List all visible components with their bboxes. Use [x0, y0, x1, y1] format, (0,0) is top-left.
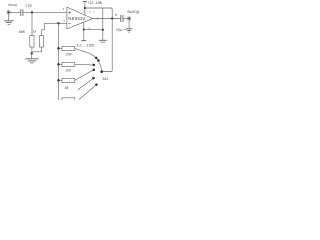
svg-text:5К: 5К	[65, 86, 70, 90]
resistor R5 (horizontal box)	[62, 78, 75, 82]
wire input connector to C1	[10, 11, 20, 13]
svg-text:NE5532: NE5532	[68, 16, 86, 21]
node D junction dot (V+ / feedback line)	[84, 7, 86, 9]
ground (output)	[126, 28, 133, 30]
svg-text:2: 2	[63, 19, 65, 23]
svg-text:ВХОД: ВХОД	[9, 3, 18, 7]
wire R3 to switch contact 1	[75, 48, 87, 52]
svg-text:3: 3	[63, 7, 65, 11]
ground (decoupling branch)	[99, 39, 107, 41]
svg-text:68К: 68К	[19, 30, 26, 34]
wire R4 to switch contact 3	[75, 63, 94, 66]
resistor R4 (horizontal box)	[62, 62, 75, 66]
wire R5 to switch contact 4	[75, 70, 94, 81]
wire ladder rail (inverting net)	[58, 23, 60, 100]
node F junction dot (branch / V- wire)	[102, 29, 104, 31]
wire output connector to ground	[128, 20, 130, 29]
switch SA1 wiper arc	[87, 52, 101, 71]
wire R2 top jog to inverting input wire	[42, 23, 45, 35]
switch contact dot 2	[97, 59, 100, 62]
svg-text:1к: 1к	[33, 30, 37, 34]
svg-text:6,7: 6,7	[89, 10, 95, 14]
svg-text:ВЫХОД: ВЫХОД	[128, 10, 140, 14]
wire C1 to op-amp pin3	[23, 11, 67, 13]
wire V+ terminal to op-amp pin 8	[84, 2, 86, 16]
switch contact dot 4	[93, 68, 96, 71]
wire input connector down to ground	[8, 14, 10, 21]
connector X2 output jack	[128, 17, 131, 20]
wire V- from op-amp pin 4 down to terminal	[83, 22, 85, 40]
op-amp plus sign	[68, 11, 71, 14]
ground (input)	[4, 20, 14, 22]
wire op-amp output	[93, 18, 121, 20]
connector X1 input jack	[7, 11, 10, 14]
svg-text:1,0µ: 1,0µ	[25, 4, 32, 8]
op-amp minus sign	[68, 23, 71, 25]
wire top horizontal from node D to output branch	[85, 8, 112, 19]
wire to switch contact 5 (from below edge)	[78, 78, 94, 90]
wire node A down to R1	[31, 12, 33, 35]
svg-text:10µ: 10µ	[116, 28, 122, 32]
switch contact dot 5	[92, 77, 95, 80]
power terminal -12...15V	[81, 40, 86, 42]
switch contact dot 1	[95, 57, 98, 60]
ground (under R1 R2)	[25, 58, 38, 60]
wire V- lead to branch	[84, 29, 103, 31]
switch contact dot 6	[95, 83, 98, 86]
resistor R2 1k (vertical box)	[40, 36, 44, 47]
wire rail to R3	[59, 47, 63, 49]
wire rail to R5	[59, 79, 63, 81]
wire R2 bottom to ground node	[32, 47, 42, 52]
scan artifact dash	[123, 29, 126, 31]
wire rail to R4	[59, 63, 63, 65]
wire op-amp pin2 (inverting input)	[44, 22, 67, 24]
resistor R1 68K (vertical box)	[30, 36, 34, 47]
node B junction dot (ground node)	[31, 52, 33, 54]
wire output node down to switch wiper	[102, 19, 113, 72]
svg-text:+12...15В: +12...15В	[87, 1, 102, 5]
wire R1 bottom to ground node	[31, 47, 33, 53]
wire ground node down	[31, 53, 33, 58]
node R2a junction dot	[57, 63, 60, 66]
resistor R3 (horizontal box)	[62, 46, 75, 50]
svg-text:SA1: SA1	[102, 77, 108, 81]
op-amp U1 NE5532 triangle	[67, 7, 93, 29]
svg-text:20К: 20К	[65, 52, 73, 56]
switch SA1 pivot dot	[100, 70, 103, 73]
wire C2 to output connector	[123, 18, 127, 20]
junction dot on V- lead	[83, 28, 85, 30]
capacitor C2 plates	[120, 15, 122, 22]
svg-text:10К: 10К	[65, 69, 72, 73]
power terminal +12...15V	[83, 1, 87, 3]
node C junction dot (inverting net to ladder rail)	[57, 22, 59, 24]
capacitor C1 plates	[20, 9, 22, 16]
svg-text:-12...15В: -12...15В	[75, 42, 94, 47]
resistor R6 (horizontal box, cut by bottom edge)	[62, 98, 75, 102]
node E junction dot (output net)	[111, 17, 113, 19]
node R1a junction dot	[57, 47, 60, 50]
node A junction dot (input net to R1)	[31, 11, 33, 13]
wire to switch contact 6 (from below edge)	[79, 85, 96, 100]
capacitor C2 plus sign	[115, 14, 117, 16]
switch contact dot 3	[93, 64, 96, 67]
node R3a junction dot	[57, 79, 60, 82]
wire V+ rail branch down to ground (crosses output wire, no junction)	[102, 8, 104, 40]
